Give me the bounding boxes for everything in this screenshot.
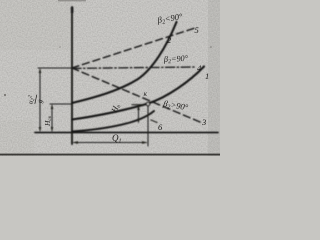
- svg-text:3: 3: [201, 117, 206, 127]
- tick at fan-point height: [38, 67, 72, 69]
- tick to label 6: [151, 120, 157, 123]
- line 4 dash-dot: [72, 67, 195, 68]
- curve 1: [72, 67, 204, 120]
- dimension Hsv: [51, 104, 54, 132]
- svg-text:к: к: [144, 89, 148, 98]
- bottom scan rule: [0, 154, 220, 156]
- tick at curve-2 start height: [50, 103, 72, 105]
- paper background: [0, 0, 220, 156]
- line 5 dashed: [72, 28, 195, 68]
- dropline from K: [147, 105, 149, 146]
- svg-text:1: 1: [205, 71, 209, 81]
- label u2/g rotated fraction: [26, 93, 45, 107]
- x-axis: [35, 132, 218, 134]
- dimension at Q1 between curves: [132, 105, 143, 124]
- point K circle: [146, 102, 149, 105]
- dimension u2^2/g: [39, 68, 42, 132]
- svg-text:5: 5: [195, 25, 199, 35]
- line 3 dashed: [72, 68, 200, 122]
- curve 2 network parabola: [72, 22, 177, 103]
- right edge shading: [208, 0, 220, 156]
- dimension Q1: [72, 141, 148, 144]
- curve 6: [72, 111, 154, 132]
- y-axis: [71, 7, 73, 144]
